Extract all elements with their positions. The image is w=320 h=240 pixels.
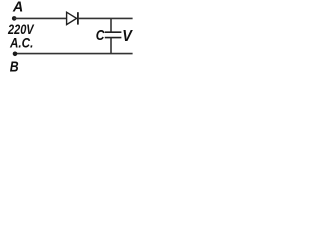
- node B: [13, 52, 18, 57]
- svg-text:A.C.: A.C.: [9, 35, 33, 51]
- capacitor C: [105, 32, 122, 37]
- wire (capacitor top stem): [110, 18, 112, 32]
- svg-text:C: C: [96, 27, 106, 44]
- wire: [14, 17, 67, 19]
- svg-text:B: B: [10, 58, 19, 75]
- svg-text:A: A: [12, 0, 23, 16]
- diode D1: [67, 12, 78, 24]
- wire (bottom): [15, 53, 133, 55]
- wire (capacitor bottom stem): [110, 38, 112, 54]
- node A: [12, 16, 17, 21]
- wire: [78, 17, 133, 19]
- svg-text:V: V: [122, 28, 133, 45]
